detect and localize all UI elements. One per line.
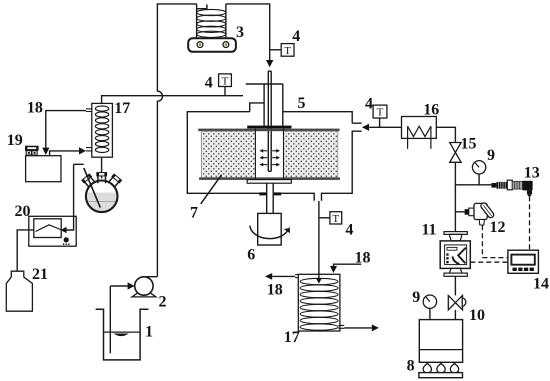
svg-text:17: 17 bbox=[284, 329, 300, 346]
wire cooler outlet arrow right bbox=[344, 327, 372, 329]
svg-text:11: 11 bbox=[421, 222, 436, 239]
wire reactor outlet into cooler bbox=[318, 274, 320, 280]
svg-text:5: 5 bbox=[298, 95, 306, 112]
wire reactor inlet from HX with arrow bbox=[369, 126, 401, 128]
reactor head lid bbox=[246, 83, 283, 85]
transducer 13 bbox=[491, 180, 532, 196]
feed tube into reactor bbox=[268, 71, 272, 171]
svg-text:4: 4 bbox=[292, 28, 300, 45]
wire 18 top-left out bbox=[46, 111, 86, 148]
svg-text:13: 13 bbox=[524, 165, 540, 182]
svg-text:1: 1 bbox=[145, 323, 153, 340]
svg-text:21: 21 bbox=[32, 266, 48, 283]
wire heater to reactor feed bbox=[226, 4, 270, 61]
wire reactor bottom outlet bbox=[318, 201, 320, 274]
wire suction dip tube bbox=[109, 286, 111, 353]
heat exchanger 16 bbox=[402, 117, 437, 149]
svg-text:16: 16 bbox=[423, 102, 439, 119]
stirrer flow arrows bbox=[259, 149, 280, 166]
svg-text:4: 4 bbox=[345, 222, 353, 239]
wire condenser to flask bbox=[101, 157, 103, 178]
gauge 9 bottom bbox=[423, 295, 436, 320]
feed arrow bbox=[266, 60, 273, 67]
reactor packing right bbox=[284, 131, 338, 177]
dashed signal 12 to panel bbox=[482, 225, 508, 257]
dashed signal 11 to panel bbox=[470, 261, 508, 263]
condenser 17 left bbox=[86, 103, 113, 157]
wire junction down to flow meter bbox=[454, 185, 456, 232]
pump 2 bbox=[132, 277, 157, 297]
svg-text:T: T bbox=[284, 45, 291, 57]
thermometer in flask bbox=[84, 168, 101, 208]
svg-text:2: 2 bbox=[159, 294, 167, 311]
T sensor box right bbox=[373, 105, 387, 119]
svg-text:9: 9 bbox=[487, 147, 495, 164]
cooler coil 17 right bbox=[295, 274, 344, 331]
wire valve to collection vessel bbox=[454, 310, 456, 320]
label 7 with leader bbox=[201, 175, 222, 204]
svg-text:14: 14 bbox=[533, 276, 549, 293]
svg-text:20: 20 bbox=[15, 203, 31, 220]
wire branch to transmitter 12 bbox=[455, 211, 464, 213]
transmitter 12 bbox=[465, 202, 495, 225]
bottle 21 bbox=[6, 271, 32, 311]
valve 10 bbox=[448, 295, 466, 310]
pump inlet arrow bbox=[110, 285, 127, 287]
wire T stub top bbox=[270, 49, 282, 51]
wire 18 left waste arrow bbox=[272, 275, 295, 277]
valve 15 bbox=[450, 143, 461, 163]
heater coil 3 bbox=[197, 4, 226, 38]
svg-text:19: 19 bbox=[7, 132, 23, 149]
T sensor box top bbox=[281, 44, 294, 57]
svg-text:7: 7 bbox=[190, 204, 198, 221]
reactor bottom plate bbox=[247, 180, 291, 184]
svg-text:12: 12 bbox=[490, 219, 506, 236]
burner flames bbox=[423, 363, 459, 373]
svg-text:18: 18 bbox=[267, 282, 283, 299]
dashed signal 13 to panel bbox=[529, 196, 531, 250]
motor 6 bbox=[258, 213, 282, 245]
wire recorder to bottle bbox=[17, 230, 34, 280]
svg-text:18: 18 bbox=[355, 250, 371, 267]
wire condenser vapor line bbox=[102, 96, 243, 104]
wire 18 right into cooler bbox=[334, 264, 362, 266]
svg-text:10: 10 bbox=[469, 307, 485, 324]
reactor vessel bottom bar bbox=[199, 177, 340, 180]
wire pump discharge to top and heater bbox=[157, 4, 196, 277]
T sensor stub bottom bbox=[319, 217, 330, 219]
control panel 14 bbox=[508, 250, 539, 273]
heater base 3 bbox=[188, 38, 236, 52]
arrow into condenser port bbox=[79, 147, 86, 154]
svg-text:T: T bbox=[377, 107, 384, 119]
svg-text:15: 15 bbox=[461, 136, 477, 153]
reactor center column walls bbox=[254, 128, 256, 179]
chiller tank 19 bbox=[26, 156, 61, 182]
wire thermometer to recorder 20 bbox=[66, 164, 84, 230]
T sensor stub right bbox=[379, 118, 381, 127]
reactor head left port step bbox=[250, 103, 264, 112]
flask bbox=[81, 172, 122, 212]
beaker 1 bbox=[96, 309, 149, 360]
arrow into chiller bbox=[42, 148, 49, 155]
svg-text:6: 6 bbox=[247, 247, 255, 264]
svg-text:3: 3 bbox=[236, 24, 244, 41]
collection vessel 8 bbox=[419, 320, 462, 363]
svg-text:4: 4 bbox=[365, 95, 373, 112]
stirrer shaft lower bbox=[266, 183, 268, 213]
recorder 20 bbox=[29, 216, 76, 246]
wire valve to junction bbox=[455, 162, 491, 185]
burner base bbox=[419, 373, 463, 378]
svg-text:18: 18 bbox=[27, 99, 43, 116]
motor rotation arrow bbox=[250, 226, 289, 239]
shaft seal bold marks bbox=[259, 192, 266, 195]
T sensor stub left bbox=[224, 87, 226, 96]
reactor head inner tube bbox=[263, 84, 265, 126]
reactor vessel top bar bbox=[198, 129, 339, 132]
svg-text:T: T bbox=[222, 75, 229, 87]
gauge 9 right bbox=[472, 161, 485, 185]
T sensor box left bbox=[219, 74, 232, 87]
chiller head device 19 bbox=[26, 146, 38, 155]
reactor packing left 7 bbox=[202, 131, 256, 177]
svg-text:T: T bbox=[332, 213, 339, 225]
wire chiller outlet to condenser bbox=[50, 151, 80, 156]
T sensor box bottom bbox=[330, 212, 342, 225]
reactor jacket bbox=[187, 112, 361, 201]
reactor top flange bold bar bbox=[247, 126, 291, 129]
svg-text:17: 17 bbox=[114, 100, 130, 117]
wire flow meter to valve 10 bbox=[454, 276, 456, 295]
svg-text:9: 9 bbox=[412, 289, 420, 306]
svg-text:4: 4 bbox=[205, 75, 213, 92]
flow meter 11 bbox=[440, 232, 470, 277]
wire HX to valve 15 bbox=[436, 127, 455, 142]
svg-text:8: 8 bbox=[407, 357, 415, 374]
